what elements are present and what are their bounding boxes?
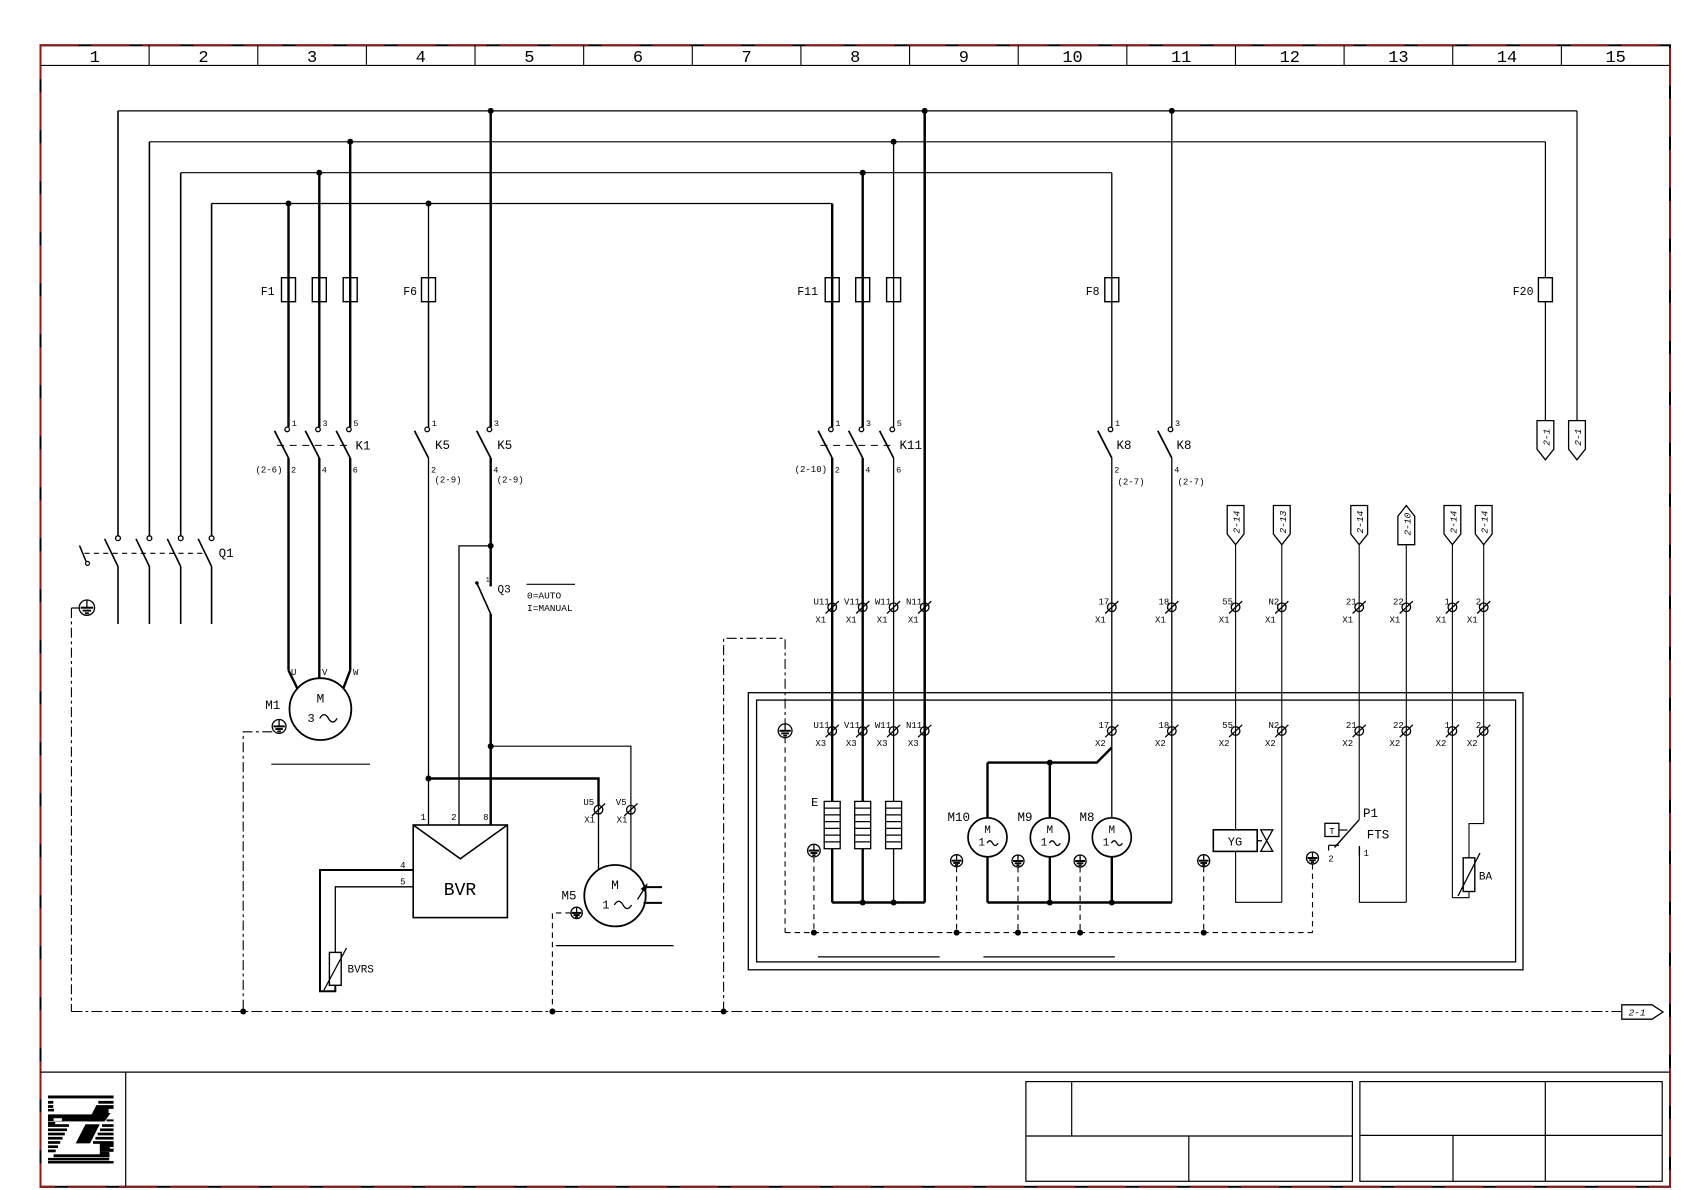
svg-text:4: 4 [865,466,870,476]
pin label 2 of P1 [1328,855,1333,865]
svg-text:M: M [316,691,324,706]
svg-text:5: 5 [524,49,534,68]
svg-text:2-14: 2-14 [1355,510,1366,533]
wire main PE bus (dash-dot) [71,1011,1621,1013]
wire F6 to K5 pole1 [428,302,430,427]
flag 2-1 at PE bus end [1622,1005,1663,1019]
wire M8 to fan bus bottom [1111,857,1113,903]
svg-text:6: 6 [896,466,901,476]
wire K1 to M1 V [318,458,320,678]
svg-text:10: 10 [1062,49,1082,68]
contactor K1 linkage (dashed) [277,444,353,446]
svg-text:BVRS: BVRS [348,965,375,977]
wire E bottoms to bus [832,849,893,903]
svg-text:17: 17 [1098,721,1109,731]
svg-text:(2-10): (2-10) [795,465,827,475]
label V5 X1 [616,798,628,826]
wire N11 column [923,111,926,903]
wire 17 K8-2 to M8 [1111,458,1113,818]
svg-text:18: 18 [1158,721,1169,731]
label K8 (pole3) [1177,439,1192,453]
wire K1 to M1 W [343,458,350,688]
wire K1 to M1 U [289,458,298,689]
label M5 [561,890,576,904]
switch Q3 (selector) [475,577,491,614]
svg-text:2: 2 [1476,597,1481,607]
svg-text:1: 1 [1041,837,1048,849]
contactor K11 contacts [818,427,894,458]
svg-text:Q3: Q3 [498,585,511,597]
wire V11 K11-4 to heater [862,458,864,801]
label M10 [947,811,970,825]
junction dots main PE bus [240,1009,726,1015]
svg-text:(2-6): (2-6) [255,466,282,476]
wire YG to N2 return [1236,851,1282,902]
svg-text:W: W [353,668,359,678]
wire E return bus [832,901,925,903]
float sensor T box [1325,823,1348,837]
svg-text:M8: M8 [1079,811,1094,825]
svg-text:U11: U11 [813,721,829,731]
wire W11 K11-6 to heater [893,458,895,801]
wire rail L2 end to F20 [1544,142,1546,278]
svg-text:W11: W11 [875,721,891,731]
svg-text:2-1: 2-1 [1573,429,1584,446]
wire BVR pin4 to BVRS bottom [320,870,413,991]
svg-text:X2: X2 [1155,739,1166,749]
wire PE bond FTS (dashed) [1312,864,1314,933]
svg-text:E: E [811,796,818,810]
svg-text:18: 18 [1158,597,1169,607]
svg-text:1: 1 [486,577,490,584]
label BVR [444,881,477,901]
svg-text:M: M [1108,825,1115,837]
junction dot rail L2 / F1-3 [347,139,353,145]
separator lines in enclosure [818,956,1115,958]
wire 2 to BA top [1469,824,1484,858]
motor M10 (1~) [968,818,1007,857]
svg-text:5: 5 [897,419,902,429]
svg-text:1: 1 [90,49,100,68]
wire rail L1 (top bus) [118,110,1577,112]
svg-text:2: 2 [431,466,436,476]
column header ruler 1-15 [41,45,1671,68]
valve coil YG box [1213,830,1257,852]
svg-text:21: 21 [1346,597,1357,607]
junction dots fan bus [1047,900,1115,906]
wire PE bond M9 (dashed) [1017,867,1019,933]
label F11 [797,286,818,299]
contactor K8 contact 3-4 [1158,427,1173,458]
wire to F11-2 [862,173,864,427]
svg-text:P1: P1 [1363,807,1378,821]
wire branch to terminal V5 [491,746,631,869]
svg-text:22: 22 [1393,597,1404,607]
junction dot V5 branch [488,743,494,749]
wire PE bond from M5 (dashed) [552,913,571,1012]
svg-text:X1: X1 [877,615,888,625]
svg-text:1: 1 [292,419,297,429]
ground PE at M8 [1074,855,1086,867]
svg-text:X2: X2 [1342,739,1353,749]
regulator BVR box [413,825,507,918]
svg-text:X2: X2 [1436,739,1447,749]
ground PE at M10 [951,855,963,867]
svg-text:M: M [611,878,619,893]
ground PE at E [808,844,821,857]
svg-text:U: U [291,668,296,678]
svg-text:1: 1 [432,419,437,429]
legend 0=AUTO I=MANUAL with overline [527,584,576,614]
label F20 [1513,286,1534,299]
svg-text:M: M [984,825,991,837]
wire K5-4 down [490,458,492,546]
svg-text:(2-7): (2-7) [1118,478,1145,488]
wire rail N [212,203,833,205]
svg-text:X3: X3 [908,739,919,749]
svg-text:U5: U5 [583,798,594,808]
flag 2-14 above 2 [1475,506,1492,824]
heater element E1 [824,801,840,848]
svg-text:V11: V11 [844,597,860,607]
svg-text:3: 3 [323,419,328,429]
pin labels U V W [291,668,359,678]
junction dot rail L1 / K5-3 [488,108,494,114]
svg-text:N11: N11 [906,721,922,731]
heater element E2 [855,801,871,848]
svg-text:BA: BA [1479,872,1493,884]
pin labels K1 top 1 3 5 [292,419,359,429]
junction dots E bus [860,900,897,906]
svg-text:K5: K5 [497,439,512,453]
svg-text:7: 7 [742,49,752,68]
svg-text:X2: X2 [1095,739,1106,749]
wire rail L2 [149,141,1545,143]
wire K5-2 down to BVR pin1 [428,458,430,825]
wire rail L3 end to F8 [1111,173,1113,427]
wire rail L3 [181,172,1112,174]
motor M8 (1~) [1092,818,1131,857]
svg-text:(2-9): (2-9) [435,476,462,486]
label F1 [261,286,275,299]
wire F6 feeder [428,204,430,428]
svg-text:X1: X1 [815,615,826,625]
svg-text:5: 5 [353,419,358,429]
enclosure box (double outline) [748,693,1523,970]
svg-text:F1: F1 [261,286,275,299]
wire PE bond jog (dash-dot) [724,638,786,1011]
wire branch to terminal U5 [429,779,599,870]
svg-text:F11: F11 [797,286,818,299]
label BA [1479,872,1493,884]
svg-text:X3: X3 [846,739,857,749]
svg-text:4: 4 [322,466,327,476]
junction dot rail N / F6 [426,201,432,207]
wire PE bond M8 (dashed) [1079,867,1081,933]
junction dot rail L1 / N11 [922,108,928,114]
svg-text:1: 1 [1364,849,1369,859]
junction dot rail L1 / K8-3 [1169,108,1175,114]
label FTS [1367,829,1390,843]
wire PE below enclosure PE (dashed) [784,738,786,933]
svg-text:1: 1 [602,899,609,913]
svg-text:1: 1 [1444,721,1449,731]
flag 2-14 above 21 [1351,506,1368,820]
flag 2-10 above 22 (up) [1398,506,1415,903]
pin labels BVR 1 2 8 [421,813,489,823]
svg-text:X1: X1 [584,816,595,826]
svg-text:1: 1 [1103,837,1110,849]
contact 1 stub of P1 [1358,846,1360,856]
svg-text:F20: F20 [1513,286,1534,299]
svg-text:13: 13 [1388,49,1408,68]
wire fan bus to M10 [986,763,988,818]
junction dot BVR pin1 branch [426,776,432,782]
svg-text:K8: K8 [1177,439,1192,453]
svg-text:M: M [1046,825,1053,837]
svg-text:X2: X2 [1265,739,1276,749]
label Q3 [498,585,511,597]
label K8 (pole1) [1117,439,1132,453]
motor M5 (1~) [584,865,645,926]
svg-text:3: 3 [307,49,317,68]
label F8 [1086,286,1100,299]
fuse F8 [1105,278,1119,302]
junction dot fan bus / M9 [1047,760,1053,766]
separator under M1 [271,763,370,765]
cross-ref (2-9) labels at K5 [435,476,524,486]
wire BVR pin5 to BVRS top [335,887,413,953]
float switch P1 blade [1335,820,1360,848]
valve symbol at YG [1257,830,1273,852]
svg-text:N11: N11 [906,597,922,607]
svg-text:K11: K11 [900,439,923,453]
svg-text:V: V [322,668,328,678]
svg-text:K5: K5 [435,439,450,453]
ground PE at M1 [272,720,286,734]
terminal U5/X1 [592,804,605,816]
wire M10 to fan bus bottom [986,857,988,903]
svg-text:2: 2 [198,49,208,68]
ground PE symbol near Q1 [71,600,94,615]
svg-text:N2: N2 [1268,597,1279,607]
svg-text:N2: N2 [1268,721,1279,731]
svg-text:X1: X1 [1155,615,1166,625]
svg-text:15: 15 [1605,49,1625,68]
switch Q1 operator [80,546,90,566]
svg-text:X1: X1 [908,615,919,625]
wire branch to BVR pin2 [459,546,491,825]
svg-text:22: 22 [1393,721,1404,731]
svg-text:I=MANUAL: I=MANUAL [527,603,573,614]
svg-text:2-10: 2-10 [1402,512,1413,535]
title block left table [1026,1082,1353,1182]
contactor K1 contacts 1-2 3-4 5-6 [275,427,352,458]
fuse F1 (3x) [282,278,358,302]
svg-text:X2: X2 [1389,739,1400,749]
motor M1 (3~) [290,678,352,740]
svg-text:2-1: 2-1 [1541,429,1552,446]
svg-text:1: 1 [421,813,426,823]
svg-text:4: 4 [493,466,498,476]
svg-text:1: 1 [1115,419,1120,429]
svg-text:X1: X1 [1389,615,1400,625]
svg-text:9: 9 [959,49,969,68]
company logo [48,1096,114,1164]
wire F20 to flag [1544,302,1546,421]
svg-text:6: 6 [353,466,358,476]
svg-text:1: 1 [1444,597,1449,607]
svg-text:X1: X1 [1342,615,1353,625]
flag 2-1 (L1 column) [1569,421,1586,460]
contactor K11 linkage (dashed) [821,444,897,446]
label Q1 [219,547,234,561]
svg-text:21: 21 [1346,721,1357,731]
svg-text:X1: X1 [1219,615,1230,625]
wire rail L1 to K5 pole3 [490,111,492,427]
sensor BA (thermistor) [1458,853,1480,896]
svg-text:3: 3 [1175,419,1180,429]
svg-text:3: 3 [308,712,315,726]
svg-text:14: 14 [1497,49,1517,68]
terminal strip X1 [813,597,1490,625]
wire PE bond YG (dashed) [1203,867,1205,933]
label YG [1228,836,1242,850]
contact 2 mark of P1 [1329,845,1339,850]
svg-text:12: 12 [1280,49,1300,68]
svg-text:55: 55 [1222,597,1233,607]
switch Q1 main poles [105,111,214,624]
svg-text:M9: M9 [1017,811,1032,825]
wire PE bond from Q1 (dash-dot) [70,608,72,1012]
ground PE enclosure main [778,724,792,738]
svg-text:X2: X2 [1467,739,1478,749]
wire F1 feeders [289,142,351,427]
svg-text:X2: X2 [1219,739,1230,749]
label BVRS [348,965,375,977]
label E [811,796,818,810]
svg-text:2-14: 2-14 [1448,510,1459,533]
pin labels K8 [1114,419,1180,476]
wire K5-4 to Q3 [490,546,492,587]
pin labels K11 [835,419,902,476]
wire M9 to fan bus bottom [1049,857,1051,903]
svg-text:K8: K8 [1117,439,1132,453]
fuse F20 [1538,278,1552,302]
svg-text:2-14: 2-14 [1232,510,1243,533]
svg-text:K1: K1 [356,440,371,454]
title block logo divider [125,1072,127,1187]
svg-text:U11: U11 [813,597,829,607]
ground PE at FTS [1307,852,1319,864]
svg-text:M1: M1 [265,699,280,713]
flag 2-1 (F20 column) [1537,421,1554,460]
cross-ref (2-6) at K1 [255,466,282,476]
wire PE bond E (dashed) [813,857,815,933]
svg-text:0=AUTO: 0=AUTO [527,591,562,602]
svg-text:6: 6 [633,49,643,68]
svg-text:2: 2 [451,813,456,823]
svg-text:X1: X1 [1436,615,1447,625]
wire rail N end to F11-1 [831,204,833,428]
wire U11 K11-2 to heater [831,458,833,801]
sensor BVRS (thermistor) [324,948,347,990]
svg-text:3: 3 [866,419,871,429]
svg-text:F6: F6 [403,286,417,299]
contactor K8 contact 1-2 [1098,427,1113,458]
stub terminals right of M5 [644,887,663,903]
junction dot under K5-4 [488,543,494,549]
flag 2-14 above 55 [1227,506,1244,830]
label K11 [900,439,923,453]
svg-text:X1: X1 [617,816,628,826]
label K5 (pole3) [497,439,512,453]
terminal strip X2/X3 [813,721,1490,749]
svg-text:2-14: 2-14 [1480,510,1491,533]
ground PE at M5 [571,907,582,918]
svg-text:4: 4 [1174,466,1179,476]
svg-text:T: T [1329,827,1335,837]
pin label 1 of P1 [1364,849,1369,859]
svg-text:M10: M10 [947,811,970,825]
label U5 X1 [583,798,595,826]
ground PE at M9 [1012,855,1024,867]
separator under M5 [556,945,674,947]
wire 18 K8-4 to fan return [1171,458,1173,903]
flag 2-13 above N2 [1273,506,1290,903]
junction dots PE bus [811,930,1207,936]
svg-text:FTS: FTS [1367,829,1390,843]
svg-text:W11: W11 [875,597,891,607]
wire PE bus in enclosure (dashed) [785,932,1312,934]
svg-text:Q1: Q1 [219,547,234,561]
terminal V5/X1 [624,804,637,816]
svg-text:2-1: 2-1 [1628,1008,1645,1019]
arrow on M5 [638,884,648,899]
contactor K5 contact 3-4 [477,427,492,458]
svg-text:X3: X3 [815,739,826,749]
wire fan bus to M9 [1049,763,1051,818]
fuse F6 [422,278,436,302]
wire PE bond from M1 (dash-dot) [243,732,272,1012]
junction dot rail L3 / F11-2 [860,170,866,176]
svg-text:X1: X1 [1095,615,1106,625]
wire Q3 down to BVR pin8 [490,614,492,825]
svg-text:8: 8 [483,813,488,823]
junction dot rail L3 / F1-2 [316,170,322,176]
title block top line [41,1071,1671,1073]
svg-text:55: 55 [1222,721,1233,731]
pin labels K5 [431,419,499,476]
junction dot rail L2 / F11-3 [891,139,897,145]
svg-text:YG: YG [1228,836,1242,850]
pin labels K1 bottom 2 4 6 [291,466,358,476]
svg-text:M5: M5 [561,890,576,904]
svg-text:2: 2 [1476,721,1481,731]
label M9 [1017,811,1032,825]
svg-text:V5: V5 [616,798,627,808]
svg-text:F8: F8 [1086,286,1100,299]
label M1 [265,699,280,713]
fuse F11 (3x) [825,278,900,302]
svg-text:2: 2 [1328,855,1333,865]
svg-text:1: 1 [978,837,985,849]
wire PE bond M10 (dashed) [956,867,958,933]
pin labels BVR 4 5 [400,861,405,888]
wire rail L1 end down to flag [1576,111,1578,421]
flag 2-14 above 1 [1444,506,1461,898]
svg-text:V11: V11 [844,721,860,731]
